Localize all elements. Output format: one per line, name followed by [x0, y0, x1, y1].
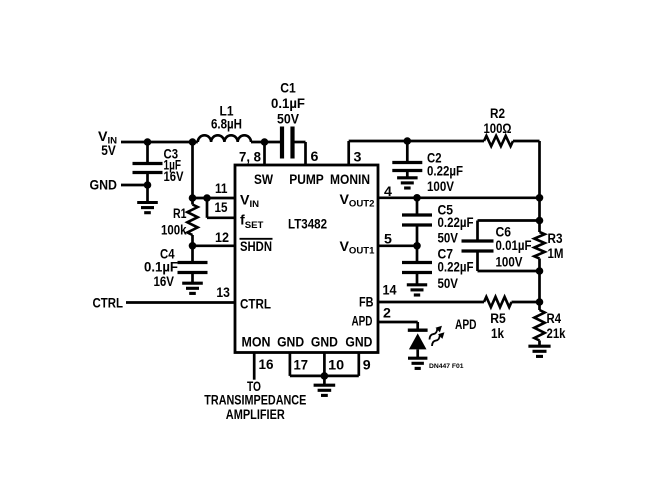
node VIN label: [98, 129, 117, 159]
svg-text:100k: 100k: [161, 223, 187, 239]
svg-text:100Ω: 100Ω: [484, 121, 512, 137]
junction R3 bottom: [536, 267, 544, 275]
R1 value label: [161, 206, 187, 239]
ground below R4: [528, 346, 550, 356]
svg-text:0.22µF: 0.22µF: [427, 164, 463, 180]
R4 value label: [547, 311, 566, 342]
wire pin15 fSET: [207, 198, 235, 218]
wire GND bus: [290, 375, 359, 378]
C4 value label: [144, 247, 178, 291]
svg-text:50V: 50V: [277, 112, 299, 128]
junction FB/R4: [536, 298, 544, 306]
wire rail R3 to FB: [538, 271, 541, 302]
wire CTRL: [126, 301, 235, 304]
junction GND/C3: [144, 181, 152, 189]
resistor R5: [484, 297, 512, 307]
svg-text:GND: GND: [311, 335, 338, 351]
svg-text:16V: 16V: [164, 169, 184, 185]
junction C2: [404, 137, 412, 145]
svg-text:R2: R2: [490, 106, 505, 122]
svg-text:100V: 100V: [427, 179, 454, 195]
wire C1 to pin6: [292, 142, 306, 165]
svg-text:GND: GND: [277, 335, 304, 351]
svg-text:0.22µF: 0.22µF: [438, 215, 474, 231]
svg-text:C1: C1: [280, 81, 296, 97]
svg-text:5V: 5V: [101, 143, 116, 159]
junction L1/R1 branch: [189, 138, 197, 146]
svg-text:DN447 F01: DN447 F01: [429, 363, 464, 370]
svg-text:6: 6: [311, 149, 319, 165]
R2 value label: [484, 106, 512, 137]
svg-text:SHDN: SHDN: [240, 239, 272, 255]
inductor L1: [198, 135, 251, 142]
svg-text:LT3482: LT3482: [288, 216, 327, 232]
svg-text:2: 2: [383, 306, 391, 322]
op-amp U1 LT3482 body: [235, 165, 378, 353]
svg-text:12: 12: [215, 230, 229, 246]
svg-text:4: 4: [384, 184, 392, 200]
junction GND bus: [321, 372, 329, 380]
svg-text:AMPLIFIER: AMPLIFIER: [226, 407, 285, 423]
wire pin9 stub: [357, 353, 360, 376]
R3 value label: [548, 231, 564, 262]
svg-text:0.1µF: 0.1µF: [271, 96, 305, 112]
svg-text:CTRL: CTRL: [240, 297, 271, 313]
svg-text:GND: GND: [345, 335, 372, 351]
svg-text:50V: 50V: [438, 231, 459, 247]
ground below GND bus: [314, 376, 336, 396]
wire L1 to SW node: [251, 141, 281, 144]
junction SW/C1: [261, 138, 269, 146]
junction R3 top: [536, 217, 544, 225]
svg-text:0.22µF: 0.22µF: [438, 260, 474, 276]
svg-text:10: 10: [328, 358, 344, 374]
junction VOUT1/C5/C7: [413, 242, 421, 250]
svg-text:13: 13: [216, 285, 230, 301]
resistor R4: [534, 302, 544, 346]
capacitor C7: [402, 246, 432, 284]
resistor R3: [534, 221, 544, 272]
wire R1 branch vertical: [191, 142, 194, 198]
svg-text:0.01µF: 0.01µF: [496, 238, 532, 254]
C6 value label: [496, 225, 532, 271]
svg-text:R4: R4: [547, 311, 562, 327]
R5 value label: [490, 311, 506, 342]
svg-text:50V: 50V: [438, 276, 459, 292]
svg-text:FB: FB: [359, 294, 374, 310]
capacitor C2: [392, 141, 422, 177]
photodiode APD: [408, 330, 428, 357]
C5 value label: [438, 203, 474, 247]
ground below APD: [408, 358, 427, 368]
wire pin3 to R2 rail: [349, 141, 484, 165]
svg-text:7, 8: 7, 8: [239, 150, 261, 166]
APD light arrows: [426, 324, 444, 340]
svg-text:16: 16: [259, 357, 274, 373]
svg-text:R1: R1: [173, 206, 187, 222]
wire R2 to right rail: [513, 140, 540, 143]
svg-text:100V: 100V: [496, 255, 523, 271]
svg-text:11: 11: [215, 181, 228, 197]
wire pin7,8 stub: [263, 142, 266, 165]
svg-text:APD: APD: [455, 317, 477, 333]
wire pin10 stub: [323, 353, 326, 376]
wire SHDN: [193, 244, 236, 247]
svg-text:21k: 21k: [547, 326, 566, 342]
ground below C2: [397, 178, 418, 188]
wire pin11 VIN: [193, 197, 236, 200]
ground below C3: [137, 203, 158, 213]
svg-text:14: 14: [383, 283, 397, 299]
wire FB: [378, 301, 540, 304]
wire VIN rail: [121, 141, 198, 144]
svg-text:GND: GND: [90, 178, 118, 194]
svg-text:3: 3: [354, 150, 362, 166]
ground below C7: [407, 285, 427, 295]
pin name SHDN with overline: [240, 239, 273, 255]
C3 value label: [164, 147, 184, 186]
wire right rail top: [538, 141, 541, 221]
svg-text:9: 9: [363, 358, 371, 374]
junction pin11: [189, 194, 197, 202]
C7 value label: [438, 247, 474, 293]
svg-text:1k: 1k: [491, 326, 504, 342]
svg-text:17: 17: [294, 358, 309, 374]
junction SHDN/C4: [189, 242, 197, 250]
junction pin15: [203, 194, 211, 202]
wire pin2 to APD: [378, 322, 418, 330]
resistor R2: [484, 136, 513, 146]
svg-text:SW: SW: [254, 172, 274, 188]
svg-text:16V: 16V: [154, 274, 175, 290]
svg-text:6.8µH: 6.8µH: [211, 117, 242, 133]
ground below C4: [182, 283, 203, 293]
svg-text:5: 5: [384, 232, 392, 248]
capacitor C6 branch: [462, 221, 540, 272]
junction VOUT2/rail: [536, 194, 544, 202]
svg-text:R5: R5: [490, 311, 506, 327]
junction C3/VIN: [144, 138, 152, 146]
capacitor C5: [402, 198, 432, 246]
svg-text:CTRL: CTRL: [93, 296, 124, 312]
capacitor C1: [282, 127, 293, 159]
svg-text:PUMP: PUMP: [289, 172, 324, 188]
capacitor C4: [178, 246, 208, 282]
svg-text:MON: MON: [242, 335, 271, 351]
svg-text:15: 15: [215, 200, 228, 216]
svg-text:R3: R3: [548, 231, 563, 247]
resistor R1: [187, 198, 197, 246]
wire VOUT2: [378, 196, 540, 199]
wire VOUT1: [378, 244, 417, 247]
junction C5: [413, 194, 421, 202]
svg-text:1M: 1M: [548, 246, 564, 262]
wire pin17 stub: [289, 353, 292, 376]
label TO TRANSIMPEDANCE AMPLIFIER: [204, 379, 306, 423]
L1 value label: [211, 104, 242, 133]
capacitor C3: [133, 142, 163, 202]
C2 value label: [427, 151, 463, 196]
wire GND to C3: [121, 184, 148, 187]
C1 value label: [271, 81, 305, 128]
svg-text:MONIN: MONIN: [330, 172, 370, 188]
wire pin16 MON stub: [253, 353, 256, 380]
svg-text:APD: APD: [352, 313, 373, 329]
